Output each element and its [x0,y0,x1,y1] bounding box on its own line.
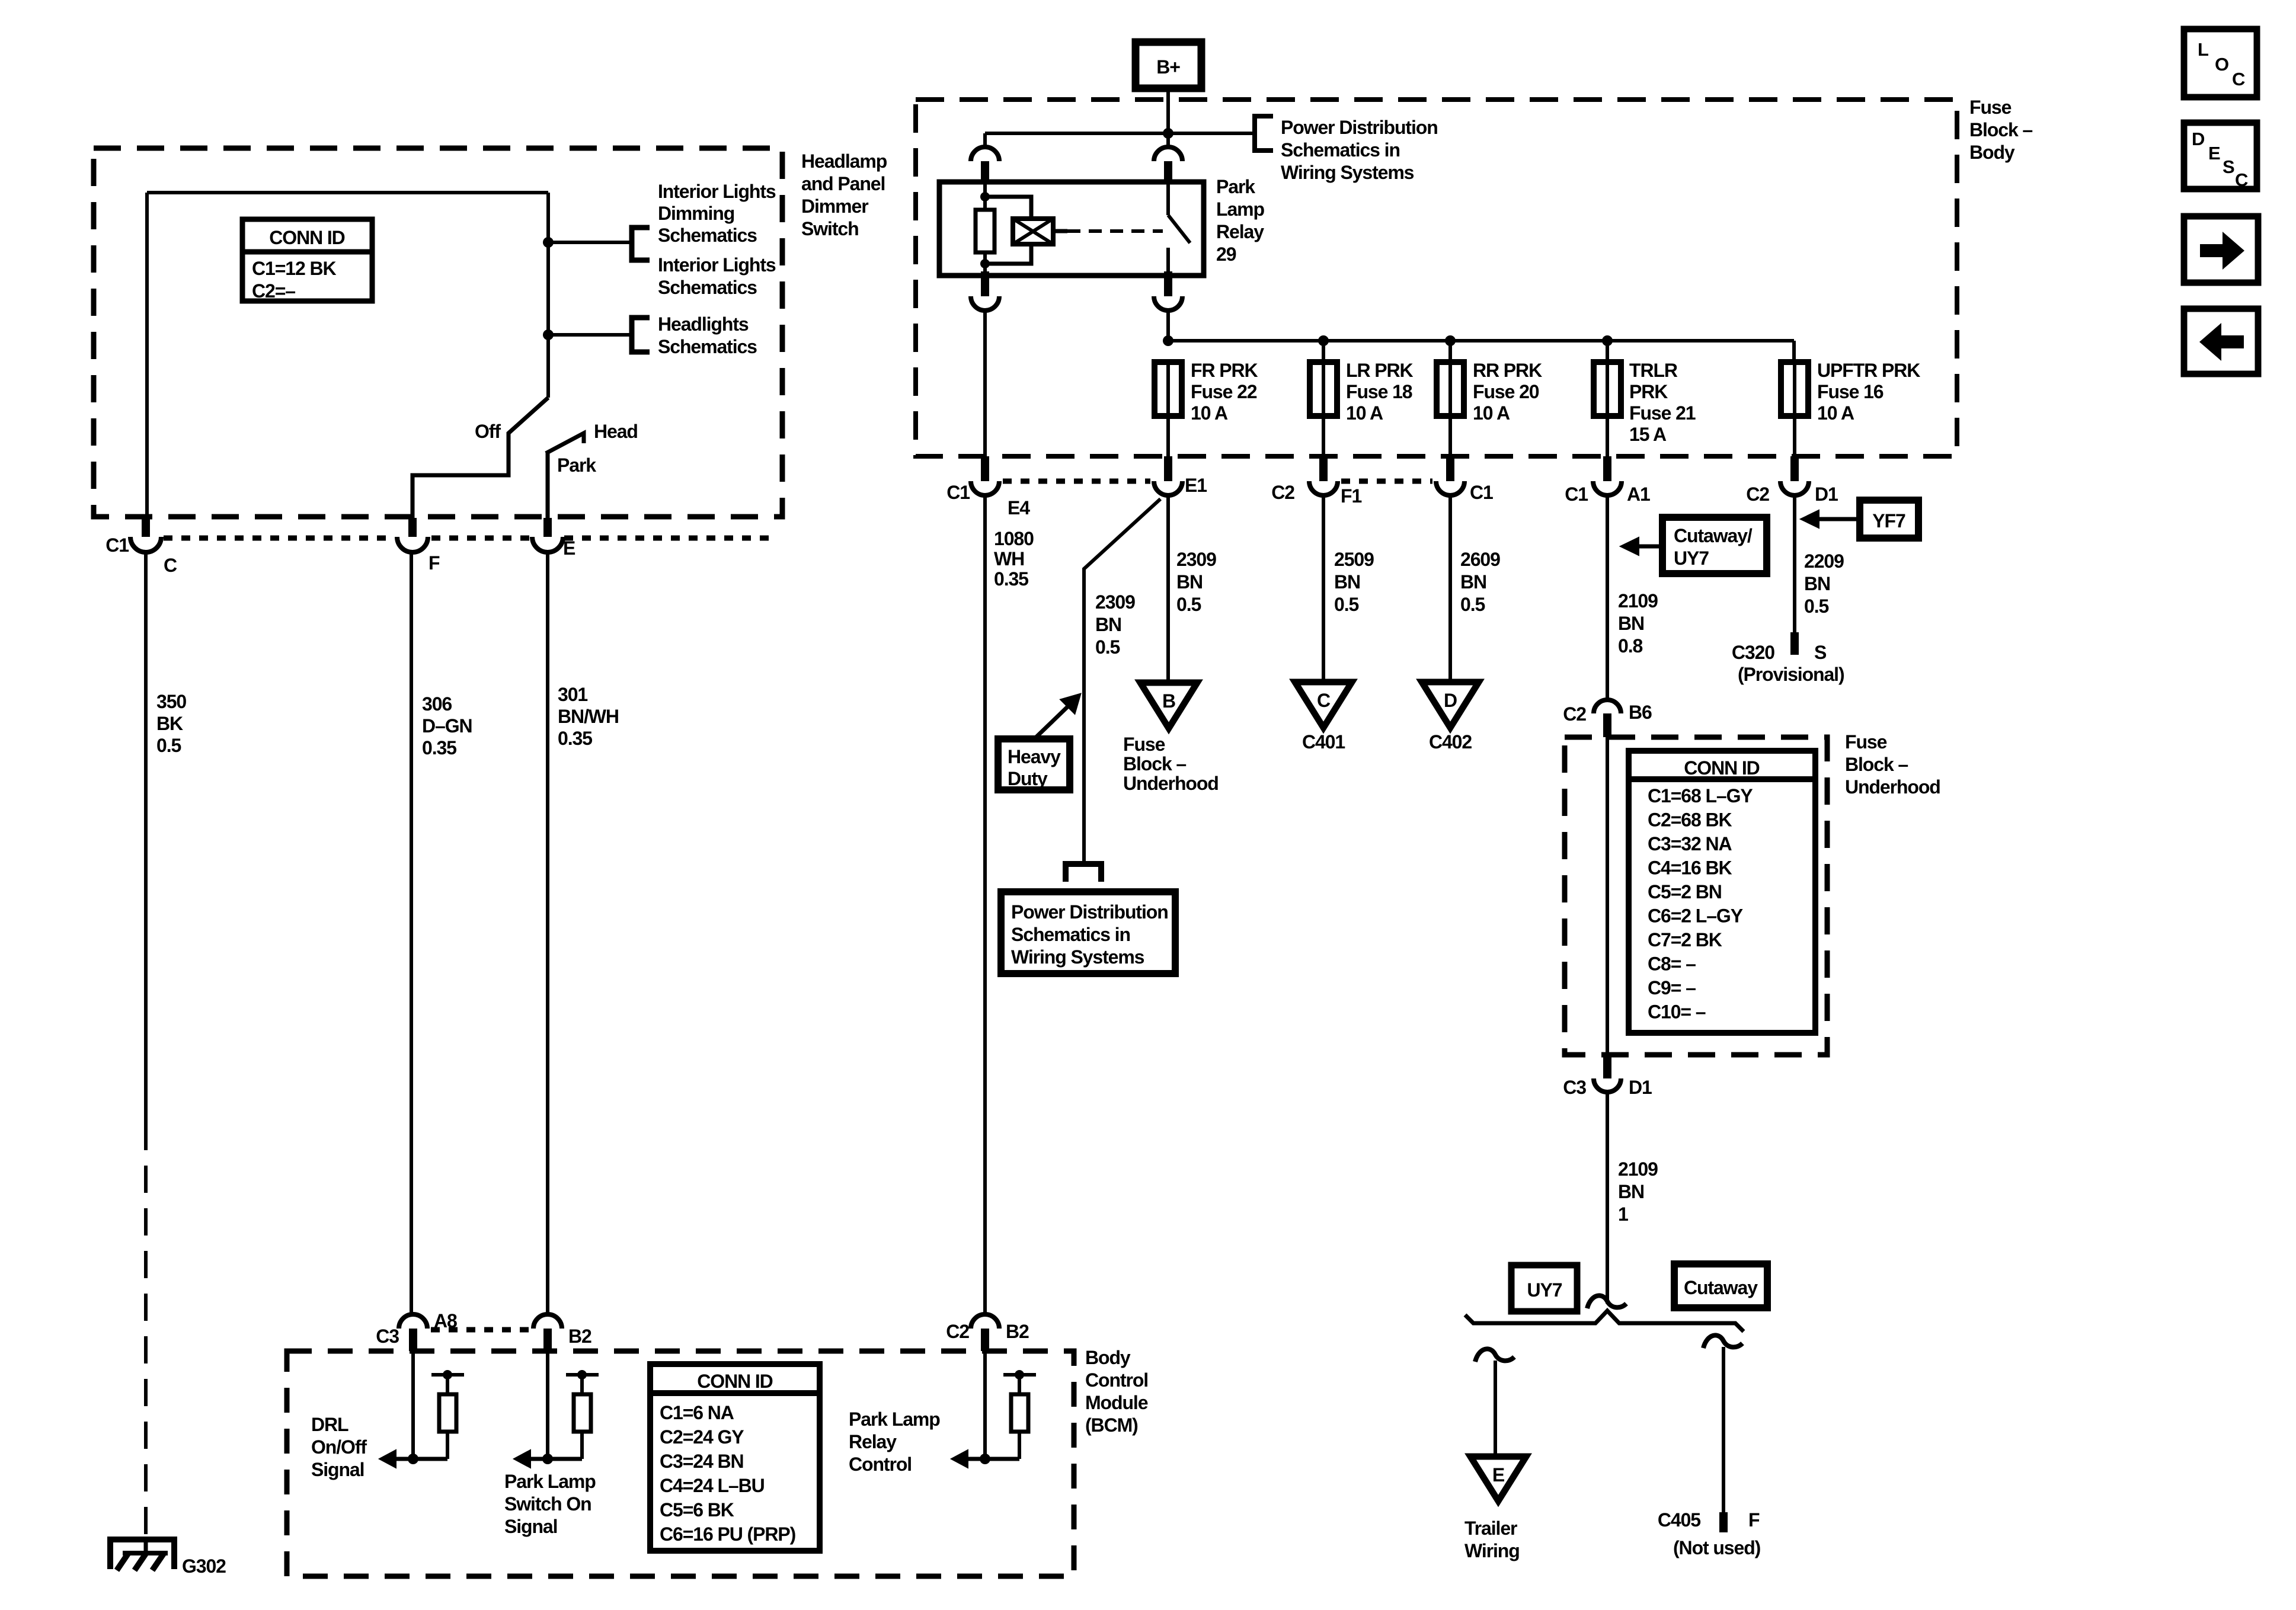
LOC button [2184,29,2257,97]
switch Off contact path [412,398,548,520]
junction bus/TRLR PRK [1602,335,1613,346]
svg-text:and Panel: and Panel [801,173,885,194]
svg-text:C: C [2235,169,2248,190]
svg-text:B2: B2 [568,1326,591,1347]
relay switch blade [1168,215,1190,243]
svg-text:CONN ID: CONN ID [697,1371,772,1392]
svg-text:PRK: PRK [1629,381,1668,402]
svg-text:C2=68 BK: C2=68 BK [1648,809,1732,831]
svg-text:2609: 2609 [1460,549,1500,570]
bracket power distribution ref [1255,116,1273,151]
svg-text:301: 301 [558,684,587,705]
svg-text:C7=2 BK: C7=2 BK [1648,929,1722,950]
triangle ref E trailer wiring [1470,1457,1526,1501]
svg-text:FR PRK: FR PRK [1191,360,1258,381]
CONN ID title separator (BCM) [650,1390,820,1396]
wire 350 BK dashed to ground [144,1123,148,1541]
svg-text:Fuse 22: Fuse 22 [1191,381,1257,402]
svg-text:Control: Control [849,1454,912,1475]
relay coil pin lead [983,182,987,197]
svg-text:Control: Control [1085,1369,1148,1391]
svg-text:C6=2 L–GY: C6=2 L–GY [1648,905,1743,927]
wire to LR PRK fuse [1322,341,1325,362]
svg-text:0.35: 0.35 [994,568,1028,590]
wire fuse20 to C1 [1448,416,1452,456]
wire to TRLR PRK fuse [1606,341,1609,362]
arrow to Cutaway/UY7 [1636,545,1662,549]
fuse block - body dashed box [916,100,1957,456]
svg-text:Heavy: Heavy [1008,746,1061,767]
end bracket to power distribution [1066,864,1101,882]
connector relay switch pin [1154,147,1182,161]
svg-text:306: 306 [422,693,452,715]
wire to RR PRK fuse [1448,341,1452,362]
svg-text:E1: E1 [1185,475,1207,496]
svg-text:Block –: Block – [1969,119,2032,140]
svg-text:10 A: 10 A [1473,402,1510,424]
svg-text:Power Distribution: Power Distribution [1011,901,1168,923]
svg-text:0.5: 0.5 [1460,594,1485,615]
UY7 ref box [1511,1265,1577,1311]
svg-text:C1=12 BK: C1=12 BK [252,258,336,279]
svg-text:C5=6 BK: C5=6 BK [660,1499,734,1521]
harness split line [1465,1311,1744,1331]
svg-text:D: D [2192,129,2205,149]
svg-text:BN: BN [1804,573,1830,594]
body control module dashed box [287,1351,1074,1576]
wire Cutaway branch to C405 [1722,1347,1725,1512]
svg-text:Schematics in: Schematics in [1281,139,1400,161]
svg-text:Body: Body [1969,142,2015,163]
B+ power feed box [1136,42,1201,88]
wire 2309 BN to B triangle [1166,495,1170,683]
wire: left vertical to C1/C [145,193,149,520]
svg-text:C2: C2 [946,1321,969,1342]
svg-text:C1: C1 [1470,482,1493,503]
wire to relay coil pin [985,132,1168,135]
wire branch to headlights ref [548,333,632,337]
svg-text:B: B [1162,690,1175,712]
svg-text:CONN ID: CONN ID [1684,757,1759,779]
park lamp relay box [939,182,1204,276]
svg-text:Body: Body [1085,1347,1131,1368]
triangle ref C [1295,682,1352,728]
svg-text:S: S [2223,156,2234,177]
svg-text:0.35: 0.35 [422,737,456,758]
wire 2309 BN heavy duty branch [1084,499,1160,863]
svg-text:BK: BK [156,713,183,734]
svg-text:D1: D1 [1629,1077,1652,1098]
prev arrow button [2184,309,2258,374]
wire 306 D-GN [410,551,413,1315]
connector relay switch out [1164,271,1172,296]
svg-text:1: 1 [1618,1204,1628,1225]
svg-text:Switch On: Switch On [504,1493,591,1515]
CONN ID box (dimmer switch) [242,219,372,301]
svg-text:B+: B+ [1156,56,1180,78]
junction bus/LR PRK [1318,335,1329,346]
svg-text:Underhood: Underhood [1123,773,1219,794]
connector relay coil pin [971,147,999,161]
svg-text:Signal: Signal [504,1516,557,1537]
svg-text:F1: F1 [1341,485,1361,507]
fuse RR PRK Fuse 20 [1437,362,1464,416]
connector F [408,518,417,537]
svg-text:BN: BN [1095,614,1121,635]
connector C2/D1 [1790,456,1799,481]
connector C3/D1 [1603,1054,1611,1078]
BCM DRL on/off input [411,1351,415,1459]
ground G302 [110,1539,174,1569]
continuation hook main wire [1587,1295,1626,1308]
svg-text:Power Distribution: Power Distribution [1281,117,1438,138]
svg-text:Head: Head [594,421,638,442]
svg-text:Schematics: Schematics [658,336,757,357]
wire 2109 BN 1 [1606,1092,1609,1304]
svg-text:Fuse: Fuse [1123,734,1165,755]
svg-text:2509: 2509 [1334,549,1374,570]
svg-text:BN/WH: BN/WH [558,706,619,727]
fuse TRLR PRK Fuse 21 [1594,362,1621,416]
wire branch to interior lights ref [548,241,630,244]
svg-text:C3=24 BN: C3=24 BN [660,1451,744,1472]
svg-text:Relay: Relay [1216,221,1264,242]
svg-text:10 A: 10 A [1817,402,1854,424]
wire fuse16 to D1 [1793,416,1796,456]
svg-text:Block –: Block – [1845,754,1908,775]
svg-text:Signal: Signal [311,1459,364,1480]
svg-text:0.5: 0.5 [156,735,181,756]
wire fuse18 to F1 [1322,416,1325,456]
svg-text:0.5: 0.5 [1804,596,1828,617]
triangle ref D [1422,682,1479,728]
connector relay coil out [981,271,989,296]
wire 301 BN/WH [546,551,549,1315]
svg-text:BN: BN [1460,571,1486,593]
svg-text:C10= –: C10= – [1648,1001,1706,1023]
continuation hook Cutaway branch [1703,1335,1742,1348]
relay actuator dashed link [1067,229,1163,233]
svg-text:Switch: Switch [801,218,859,239]
svg-text:C320: C320 [1732,642,1774,663]
wire fuse22 to E1 [1166,416,1170,456]
svg-text:DRL: DRL [311,1414,348,1435]
svg-text:Park Lamp: Park Lamp [504,1471,596,1492]
connector C3/A8 [399,1314,427,1329]
switch Park/Head lever [546,452,550,520]
svg-text:C8= –: C8= – [1648,953,1696,975]
connector C2/B6 [1594,700,1621,713]
svg-text:350: 350 [156,691,186,712]
svg-text:Dimming: Dimming [658,203,734,224]
svg-text:2109: 2109 [1618,1158,1658,1180]
svg-text:E4: E4 [1008,497,1030,518]
wire from B+ [1166,88,1170,148]
svg-text:LR PRK: LR PRK [1346,360,1414,381]
fuse UPFTR PRK Fuse 16 [1781,362,1808,416]
svg-text:C2: C2 [1563,703,1586,725]
svg-text:C5=2 BN: C5=2 BN [1648,881,1722,902]
fuse bus [1168,339,1794,343]
svg-text:O: O [2215,54,2228,75]
svg-text:10 A: 10 A [1346,402,1383,424]
wire down to relay coil connector [983,133,987,148]
Cutaway ref box [1674,1264,1767,1308]
wire relay out to fuse bus [1166,311,1170,341]
wire 2509 BN to C401 [1322,495,1325,682]
svg-text:C: C [164,555,177,576]
svg-text:Fuse 20: Fuse 20 [1473,381,1539,402]
svg-text:TRLR: TRLR [1629,360,1678,381]
headlamp and panel dimmer switch dashed box [94,148,782,517]
svg-text:C1: C1 [1565,484,1588,505]
svg-text:UY7: UY7 [1527,1279,1562,1301]
junction [543,329,554,340]
connector C2/B2 (relay control) [971,1314,999,1329]
svg-text:Headlights: Headlights [658,313,749,335]
relay solenoid branch [985,197,1031,219]
wire coil top lead [983,197,987,210]
wire 350 BK [144,551,148,1123]
arrow heavy duty [1034,707,1067,739]
svg-text:B6: B6 [1629,702,1652,723]
svg-text:0.5: 0.5 [1176,594,1201,615]
DESC button [2184,123,2257,189]
svg-text:(Not used): (Not used) [1673,1537,1761,1558]
svg-text:A1: A1 [1627,484,1650,505]
connector C405 F (not used) [1719,1512,1728,1532]
junction [980,192,990,201]
svg-text:0.5: 0.5 [1334,594,1358,615]
svg-text:B2: B2 [1006,1321,1029,1342]
svg-text:C: C [2232,69,2245,89]
svg-text:(Provisional): (Provisional) [1738,664,1844,685]
svg-text:C2: C2 [1271,482,1294,503]
svg-text:D–GN: D–GN [422,715,472,737]
svg-text:E: E [563,537,575,559]
junction [543,237,554,248]
svg-text:Fuse: Fuse [1969,97,2012,118]
svg-text:Lamp: Lamp [1216,199,1264,220]
svg-text:Fuse 16: Fuse 16 [1817,381,1884,402]
svg-text:Relay: Relay [849,1431,897,1452]
svg-text:Schematics in: Schematics in [1011,924,1130,945]
wire to power distribution ref [1168,132,1253,135]
junction [980,259,990,268]
svg-text:E: E [1492,1464,1505,1486]
svg-text:Dimmer: Dimmer [801,196,868,217]
fuse FR PRK Fuse 22 [1155,362,1182,416]
svg-text:BN: BN [1618,1181,1644,1202]
svg-text:2309: 2309 [1095,591,1135,613]
svg-text:F: F [1748,1509,1760,1531]
svg-text:C6=16 PU (PRP): C6=16 PU (PRP) [660,1523,796,1545]
wire coil to relay pin [983,264,987,276]
svg-text:C402: C402 [1429,731,1472,753]
svg-text:D1: D1 [1815,484,1838,505]
svg-text:S: S [1814,642,1827,663]
connector C320 S (provisional) [1790,632,1799,655]
svg-text:2209: 2209 [1804,550,1844,572]
connector C2/F1 [1319,456,1328,481]
svg-text:C: C [1317,690,1331,711]
svg-text:C4=16 BK: C4=16 BK [1648,857,1732,879]
svg-text:Trailer: Trailer [1464,1518,1517,1539]
svg-text:Wiring: Wiring [1464,1540,1520,1561]
svg-text:Off: Off [475,421,501,442]
svg-text:Interior Lights: Interior Lights [658,181,776,202]
Cutaway/UY7 ref box [1662,517,1767,574]
svg-text:0.35: 0.35 [558,728,592,749]
svg-text:C2: C2 [1746,484,1769,505]
connector E [543,518,552,537]
bracket headlights ref [632,318,650,352]
svg-text:L: L [2198,39,2208,60]
BCM park lamp switch input [546,1351,549,1459]
wire 1080 WH [983,495,987,1314]
svg-text:F: F [428,552,440,574]
svg-text:C3: C3 [376,1326,399,1347]
connector C1/C [142,518,150,537]
svg-text:C4=24 L–BU: C4=24 L–BU [660,1475,765,1496]
Heavy Duty box [998,739,1070,790]
YF7 ref box [1860,500,1918,538]
relay switch lower contact [1166,248,1170,276]
svg-text:Park: Park [557,454,596,476]
junction at B+ wire [1163,128,1173,139]
svg-text:C3: C3 [1563,1077,1586,1098]
bracket interior lights ref [632,228,650,260]
svg-text:BN: BN [1334,571,1360,593]
svg-text:D: D [1444,690,1457,711]
relay coil resistor [976,210,994,252]
relay switch lead [1166,182,1170,215]
svg-text:Wiring Systems: Wiring Systems [1011,946,1144,968]
svg-text:Cutaway/: Cutaway/ [1674,525,1753,546]
svg-text:29: 29 [1216,244,1236,265]
svg-text:Module: Module [1085,1392,1148,1413]
wire through underhood block [1606,737,1609,1054]
wire coil bottom lead [983,252,987,264]
svg-text:Fuse: Fuse [1845,731,1887,753]
wire 2209 BN [1793,495,1796,632]
relay solenoid X box [1013,219,1053,244]
wire UY7 branch to E [1494,1361,1497,1457]
svg-text:UPFTR PRK: UPFTR PRK [1817,360,1920,381]
svg-text:UY7: UY7 [1674,548,1709,569]
svg-text:C2=–: C2=– [252,280,295,302]
wire: switch common vertical [546,193,550,398]
svg-text:C1=6 NA: C1=6 NA [660,1402,734,1423]
triangle ref B fuse block underhood [1140,683,1197,728]
dotted in-line connector row 2 [1003,479,1150,484]
CONN ID box (underhood) [1629,751,1815,1033]
svg-text:BN: BN [1176,571,1203,593]
svg-text:Underhood: Underhood [1845,776,1940,798]
svg-text:Fuse 21: Fuse 21 [1629,402,1696,424]
connector C1 (RR) [1446,456,1454,481]
fuse block - underhood dashed box [1565,737,1827,1055]
svg-text:C401: C401 [1302,731,1345,753]
connector B2 [533,1314,562,1329]
svg-text:0.5: 0.5 [1095,636,1120,658]
junction bus/FR PRK [1163,335,1173,346]
CONN ID title separator (underhood) [1629,776,1815,782]
CONN ID box (BCM) [650,1364,820,1551]
solenoid stub [1053,229,1067,233]
wire 2109 BN to B6 [1606,495,1609,700]
svg-text:C9= –: C9= – [1648,977,1696,998]
dotted in-line connector row [164,536,394,541]
svg-text:0.8: 0.8 [1618,635,1642,657]
svg-text:G302: G302 [182,1555,226,1577]
CONN ID title separator [242,249,372,255]
svg-text:On/Off: On/Off [311,1436,367,1458]
svg-text:Block –: Block – [1123,753,1186,774]
svg-text:YF7: YF7 [1872,510,1905,532]
svg-text:BN: BN [1618,613,1644,634]
BCM park lamp relay control output [983,1351,987,1459]
svg-text:Schematics: Schematics [658,225,757,246]
connector C1/E4 [981,456,989,481]
power distribution schematics box [1001,892,1175,974]
wire: switch top horizontal [147,191,548,194]
svg-text:2309: 2309 [1176,549,1216,570]
svg-text:Park Lamp: Park Lamp [849,1409,940,1430]
next arrow button [2184,216,2258,283]
svg-text:15 A: 15 A [1629,424,1667,445]
continuation hook UY7 branch [1475,1349,1514,1362]
svg-text:C1=68 L–GY: C1=68 L–GY [1648,785,1753,806]
wire relay coil out to E4 [983,311,987,456]
connector E1 [1164,456,1172,481]
svg-text:Duty: Duty [1008,768,1048,789]
svg-text:Interior Lights: Interior Lights [658,254,776,276]
svg-text:Schematics: Schematics [658,277,757,298]
svg-text:(BCM): (BCM) [1085,1414,1138,1436]
svg-text:C1: C1 [105,534,129,556]
dotted connector row BCM [431,1327,530,1333]
connector C1/A1 [1603,456,1611,481]
svg-text:C2=24 GY: C2=24 GY [660,1426,744,1448]
arrow from YF7 [1817,517,1860,521]
svg-text:C405: C405 [1658,1509,1700,1531]
svg-text:10 A: 10 A [1191,402,1228,424]
svg-text:Headlamp: Headlamp [801,151,887,172]
svg-text:WH: WH [994,548,1024,569]
svg-text:Park: Park [1216,176,1255,197]
svg-text:RR PRK: RR PRK [1473,360,1542,381]
svg-text:CONN ID: CONN ID [269,227,344,248]
fuse LR PRK Fuse 18 [1310,362,1337,416]
svg-text:Fuse 18: Fuse 18 [1346,381,1412,402]
junction bus/RR PRK [1445,335,1456,346]
wire 2609 BN to C402 [1448,495,1452,682]
svg-text:2109: 2109 [1618,590,1658,612]
svg-text:1080: 1080 [994,528,1034,549]
wire fuse21 to A1 [1606,416,1609,456]
svg-text:Wiring Systems: Wiring Systems [1281,162,1414,183]
svg-text:C3=32 NA: C3=32 NA [1648,833,1732,854]
svg-text:Cutaway: Cutaway [1684,1277,1758,1298]
svg-text:E: E [2208,143,2220,164]
svg-text:C1: C1 [946,482,970,503]
